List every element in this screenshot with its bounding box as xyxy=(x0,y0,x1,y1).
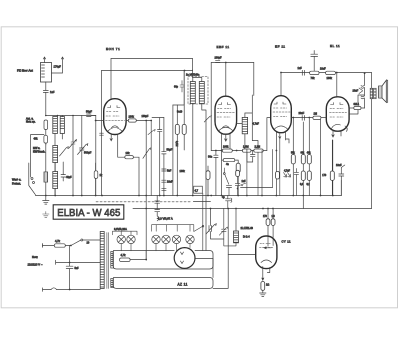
resistor 1,0M row1 xyxy=(242,149,251,152)
wire xyxy=(193,104,206,251)
svg-text:170pF: 170pF xyxy=(54,65,62,69)
wire xyxy=(110,59,112,100)
wire EL11 grid drop xyxy=(336,73,338,98)
resistor vertical right of box xyxy=(206,171,210,180)
svg-text:30n: 30n xyxy=(208,156,213,159)
filter capacitor stack xyxy=(155,196,160,221)
wire B+ down to transformer xyxy=(371,73,373,89)
svg-text:500pF: 500pF xyxy=(84,151,92,155)
svg-text:4,7: 4,7 xyxy=(195,189,199,193)
wire B plus column xyxy=(213,209,228,289)
resistor vertical row A1 xyxy=(291,155,295,164)
wire xyxy=(57,289,101,291)
wire anode EL11 to transformer xyxy=(349,95,364,114)
trimmer arrow small xyxy=(148,130,155,135)
wire xyxy=(83,239,100,241)
svg-text:6,3 V/0,07 A: 6,3 V/0,07 A xyxy=(158,216,173,220)
wire heater feed to rectifier xyxy=(228,254,256,256)
wire row1 xyxy=(211,150,267,152)
wire xyxy=(152,118,164,130)
filter capacitor pair right xyxy=(226,196,232,209)
wire xyxy=(45,130,47,196)
tube U4 pins xyxy=(332,126,347,137)
speaker LS1 xyxy=(379,80,388,102)
output transformer T-out primary xyxy=(370,88,373,98)
IF transformer T2 coil xyxy=(242,117,247,133)
capacitor 50pF mid xyxy=(162,152,166,154)
wire transformer secondary down xyxy=(371,99,373,209)
antenna coil L1 xyxy=(41,63,52,83)
wire xyxy=(192,59,194,71)
svg-text:110/220 V ~: 110/220 V ~ xyxy=(28,263,43,267)
power transformer primary winding xyxy=(100,232,104,289)
band switch bracket xyxy=(31,135,44,178)
wire downlead to tuner row xyxy=(45,93,47,116)
wire xyxy=(279,133,281,196)
bus 2 (B+ rail) xyxy=(133,208,372,210)
capacitor ticks lower xyxy=(162,169,166,190)
trimmer arrow IFT xyxy=(204,116,211,122)
resistor vertical row B2 xyxy=(307,171,311,180)
resistor below rectifier xyxy=(261,282,265,291)
svg-text:5nF: 5nF xyxy=(167,170,172,173)
svg-text:10nF: 10nF xyxy=(353,90,359,93)
wire xyxy=(211,209,224,240)
junction xyxy=(69,262,71,264)
resistor vertical 170 right xyxy=(330,171,334,180)
wire xyxy=(101,71,103,196)
wire xyxy=(130,251,146,260)
IFT1 secondary coil xyxy=(199,82,204,104)
potentiometer arrow xyxy=(143,148,151,159)
capacitor on AVC column xyxy=(158,130,162,132)
capacitor 10nF speaker xyxy=(359,88,363,94)
capacitor 30nF left xyxy=(214,155,218,157)
trimmer arrow over osc coil xyxy=(60,147,69,156)
wire second top bus xyxy=(102,70,193,72)
triode-hexode tube U1 ECH71 xyxy=(104,99,126,135)
svg-text:6,3V/0,28A: 6,3V/0,28A xyxy=(114,227,127,231)
junction dots bus2 xyxy=(145,208,274,210)
capacitor 50pF top xyxy=(87,114,96,117)
resistor vertical 4,7nF column xyxy=(276,171,280,179)
title box ELBIA W465 xyxy=(53,205,124,219)
wire speaker left column xyxy=(364,73,366,108)
wire AVC column xyxy=(159,132,161,196)
wire grid left xyxy=(96,120,104,122)
resistor 1M coupling xyxy=(313,116,321,119)
wire xyxy=(95,116,97,196)
resistor R row top1 xyxy=(310,71,319,74)
switch contacts wave switch xyxy=(31,178,33,180)
wire fuse line bottom left xyxy=(43,245,55,247)
IFT1 primary coil xyxy=(190,82,195,104)
svg-text:100k: 100k xyxy=(327,77,333,80)
voice coil squiggles xyxy=(361,86,364,99)
tube U3 pins xyxy=(276,131,289,196)
svg-text:1nF: 1nF xyxy=(50,90,55,94)
rectifier tube U5 xyxy=(256,236,277,269)
trimmer capacitor bottom xyxy=(206,224,216,234)
svg-text:11.17/11.48: 11.17/11.48 xyxy=(241,227,254,230)
mains lead top with prong xyxy=(56,260,70,264)
junction xyxy=(236,150,238,152)
resistor 1k vertical xyxy=(94,171,98,179)
wire xyxy=(55,116,62,196)
capacitor on cathode line xyxy=(100,133,104,135)
resistor vertical row B1 xyxy=(301,171,305,180)
wire xyxy=(69,246,71,290)
tube U2 internals xyxy=(217,103,235,131)
wire xyxy=(45,143,47,145)
power transformer core xyxy=(107,233,109,289)
svg-text:4,7k: 4,7k xyxy=(55,239,61,243)
ground symbol xyxy=(43,196,49,205)
mains switch blade xyxy=(71,240,80,245)
resistor R row top2 xyxy=(326,71,336,74)
wire xyxy=(163,118,165,196)
wire xyxy=(245,95,252,151)
wire xyxy=(247,151,262,196)
variable capacitor C-tune1 xyxy=(78,144,88,155)
output transformer T-out secondary xyxy=(374,88,377,98)
wire xyxy=(222,151,239,196)
capacitor 1nF with pointer xyxy=(236,170,240,176)
junction xyxy=(280,72,282,74)
power transformer heater winding 1 xyxy=(111,252,114,269)
junction xyxy=(215,150,217,152)
wire columns below coupling xyxy=(293,118,320,196)
wire xyxy=(195,259,213,278)
fuse resistor 4,7k xyxy=(54,244,65,247)
capacitor 40pF xyxy=(61,175,66,182)
wire grid cap tube3 xyxy=(280,73,282,96)
svg-text:10nF: 10nF xyxy=(167,181,173,184)
wire xyxy=(210,63,212,151)
switch blade at lamp bracket xyxy=(194,227,203,232)
dial lamp 4 xyxy=(162,235,170,243)
svg-text:1nF: 1nF xyxy=(242,180,247,183)
dial lamp 1 xyxy=(117,235,125,243)
svg-text:100pF: 100pF xyxy=(142,115,149,118)
capacitor 5nF to top xyxy=(311,51,318,73)
wire xyxy=(133,157,139,195)
mechanical gang dashed link xyxy=(96,201,192,203)
junction xyxy=(145,120,147,122)
svg-text:0,1M: 0,1M xyxy=(175,141,178,146)
junction xyxy=(145,259,147,261)
switch blade xyxy=(29,163,36,195)
capacitor 1nF in downlead xyxy=(43,91,48,93)
junction xyxy=(237,188,239,190)
junction xyxy=(69,289,71,291)
resistor 4n row2 xyxy=(223,159,235,162)
mains switch bump xyxy=(51,288,57,290)
wire tube2 plate to T2 xyxy=(236,123,242,125)
svg-text:Freiant.: Freiant. xyxy=(12,182,21,186)
junction xyxy=(221,150,223,152)
wire xyxy=(183,71,185,151)
input coil KW xyxy=(60,117,64,134)
wire long vertical xyxy=(145,121,147,261)
resistor vertical row A3 xyxy=(307,155,311,164)
svg-text:10nF: 10nF xyxy=(336,164,342,167)
wire xyxy=(192,70,194,78)
capacitor 100pF on top bus xyxy=(216,60,220,62)
resistor vertical rect1 xyxy=(266,219,270,226)
capacitor +/- mark xyxy=(247,149,255,162)
wire xyxy=(331,140,333,196)
svg-text:4,7k: 4,7k xyxy=(121,253,127,257)
wire xyxy=(176,105,178,196)
rectifier socket circle AZ11 xyxy=(174,248,195,269)
resistor vertical 40k xyxy=(44,135,48,143)
dial lamp 5 xyxy=(172,235,180,243)
lamp bracket right xyxy=(152,225,194,232)
junction xyxy=(313,72,315,74)
svg-text:0M-1: 0M-1 xyxy=(354,103,360,106)
wire heater feed xyxy=(202,193,204,250)
wire xyxy=(150,121,152,196)
wire xyxy=(126,120,151,122)
wire top bus ECH stage xyxy=(111,58,193,60)
svg-text:60p: 60p xyxy=(174,86,179,89)
svg-text:1,0M: 1,0M xyxy=(243,146,249,149)
oscillator coil 1 xyxy=(53,146,58,163)
wire oscillator grid column xyxy=(172,105,174,196)
wire coil to second arrow xyxy=(52,57,64,73)
ground stem lower xyxy=(43,212,49,218)
wire xyxy=(303,180,309,208)
svg-text:100k: 100k xyxy=(180,170,186,173)
junction xyxy=(45,115,47,117)
antenna arrow up xyxy=(43,57,45,63)
resistor 100k anode xyxy=(128,119,136,122)
dial lamp 3 xyxy=(152,235,160,243)
svg-text:Netz sp.: Netz sp. xyxy=(26,120,36,124)
svg-text:EBF 11: EBF 11 xyxy=(217,45,230,49)
svg-text:2,2M: 2,2M xyxy=(255,146,261,149)
svg-text:50pF: 50pF xyxy=(86,110,92,114)
power pentode U4 EL11 xyxy=(326,97,349,131)
resistor 100k row1 xyxy=(222,149,232,152)
wire xyxy=(340,181,342,196)
wire xyxy=(173,71,184,106)
resistor 50k vertical xyxy=(175,124,179,134)
svg-text:1nF: 1nF xyxy=(298,67,303,70)
junction xyxy=(70,245,72,247)
wire xyxy=(235,209,237,232)
svg-text:AZ 11: AZ 11 xyxy=(178,283,188,287)
wire bus1 right end up xyxy=(340,181,342,196)
svg-text:50pF: 50pF xyxy=(167,149,173,152)
wire top bus right (B+ to EL11) xyxy=(281,72,372,74)
resistor vertical row A2 xyxy=(301,155,305,164)
tube U5 internals xyxy=(260,244,274,263)
svg-text:2a 147/148a: 2a 147/148a xyxy=(186,74,200,77)
tube U4 internals xyxy=(330,103,347,129)
wire xyxy=(72,116,74,196)
junction xyxy=(308,117,310,119)
resistor 0.1M vertical xyxy=(182,124,186,134)
wire xyxy=(54,163,56,196)
resistor OM-L pill xyxy=(354,106,361,109)
junction dots on ground bus xyxy=(45,195,334,197)
wire xyxy=(237,160,239,195)
wire feedback loop xyxy=(241,150,273,188)
svg-text:Dr 1-4: Dr 1-4 xyxy=(243,236,250,239)
trimmer capacitor on choke column xyxy=(219,227,228,235)
svg-text:100k: 100k xyxy=(223,146,229,149)
dial lamp 6 xyxy=(186,235,194,243)
junction xyxy=(336,72,338,74)
wire xyxy=(349,107,365,109)
tube U3 internals xyxy=(273,102,290,129)
dial lamp 2 xyxy=(127,235,135,243)
resistor vertical rect2 xyxy=(271,219,275,226)
svg-text:40pF: 40pF xyxy=(66,176,72,179)
lamp bracket left xyxy=(113,231,138,235)
svg-text:1M: 1M xyxy=(314,113,317,116)
svg-text:5+10: 5+10 xyxy=(177,112,183,114)
tube U1 internals xyxy=(106,106,125,132)
wire to tube3 xyxy=(252,141,258,151)
junction xyxy=(150,120,152,122)
socket filament marks xyxy=(181,252,184,264)
svg-text:ECH 71: ECH 71 xyxy=(106,47,120,51)
wire choke column xyxy=(224,209,236,246)
wire xyxy=(62,162,64,175)
lamp stubs to chassis box xyxy=(121,244,190,251)
filter choke Dr xyxy=(234,231,239,243)
pentode U2 EBF11 xyxy=(215,96,237,134)
wire xyxy=(207,166,209,196)
wire xyxy=(268,209,273,238)
resistor vertical in antenna lead xyxy=(44,120,48,130)
svg-text:4,7nF: 4,7nF xyxy=(284,171,290,173)
ground below rectifier xyxy=(260,290,266,296)
svg-text:FE über Ant: FE über Ant xyxy=(17,69,33,73)
resistor 10k xyxy=(125,156,134,159)
resistor 2,2M row1 xyxy=(254,149,263,152)
wire xyxy=(65,245,71,247)
heater loop box upper xyxy=(113,251,213,270)
svg-text:ELBIA - W 465: ELBIA - W 465 xyxy=(57,208,120,219)
junction xyxy=(72,115,74,117)
short rail below 4,7 box xyxy=(193,201,210,203)
wire xyxy=(81,116,83,196)
junction xyxy=(292,117,294,119)
heater loop box lower xyxy=(113,278,213,289)
svg-text:Wurf- u.: Wurf- u. xyxy=(12,178,21,182)
junction xyxy=(364,72,366,74)
wire antenna downlead xyxy=(45,82,47,90)
svg-text:4,7nF: 4,7nF xyxy=(253,123,260,126)
anode arrow inside rectifier xyxy=(265,247,271,249)
power transformer heater winding 2 xyxy=(111,279,114,288)
pentode U3 EF11 xyxy=(271,96,292,133)
tone switch with capacitor xyxy=(223,173,225,175)
capacitor ticks mid right xyxy=(294,169,298,196)
svg-text:100pF: 100pF xyxy=(215,57,223,60)
svg-text:5nF: 5nF xyxy=(75,267,80,270)
wire pin to 10k xyxy=(118,134,125,157)
wire xyxy=(70,262,101,264)
plug prong left xyxy=(42,244,44,248)
capacitor series in top bus xyxy=(302,70,304,75)
capacitor 60pF left of IFT1 xyxy=(180,81,184,93)
ground bus main xyxy=(35,195,341,197)
resistor 4,7k in heater loop xyxy=(120,258,131,262)
svg-text:EL 11: EL 11 xyxy=(330,44,340,48)
wire tube3 input left xyxy=(267,118,271,151)
svg-text:KW/Tonab.: KW/Tonab. xyxy=(33,151,46,154)
input coil MW xyxy=(53,117,58,134)
trimmer capacitor with arrow xyxy=(69,140,77,149)
junction xyxy=(95,120,97,122)
svg-text:Netz: Netz xyxy=(32,255,38,259)
IF transformer T1 dashed box xyxy=(188,77,208,105)
oscillator coil 2 xyxy=(53,172,58,189)
tube U1 cathode pins xyxy=(110,134,112,141)
node junction xyxy=(184,70,186,72)
diode arrow mid xyxy=(284,173,291,178)
node tuner top row wire xyxy=(46,115,96,117)
capacitor 20nF coupling xyxy=(302,116,304,121)
junction xyxy=(276,150,278,152)
junction xyxy=(207,195,209,197)
svg-text:EF 11: EF 11 xyxy=(275,45,286,49)
wire tube3-tube4 coupling xyxy=(291,117,326,119)
wire tube4 cathode down xyxy=(332,140,334,196)
resistor vertical on antenna line lower xyxy=(44,172,48,182)
wire xyxy=(293,164,309,196)
wire xyxy=(95,163,97,196)
capacitor 5nF across mains xyxy=(66,266,73,268)
junction xyxy=(225,62,227,64)
resistor 50k vertical below xyxy=(236,163,240,172)
tube U5 pins xyxy=(263,267,270,278)
svg-text:100k: 100k xyxy=(129,116,135,119)
capacitor 10nF with switch right xyxy=(339,165,345,181)
tube U2 pins xyxy=(222,134,231,151)
wire xyxy=(215,151,217,196)
component box 4,7 xyxy=(194,186,203,193)
junction xyxy=(57,115,59,117)
wire EBF top bus xyxy=(211,62,254,64)
svg-text:20nF: 20nF xyxy=(299,112,305,115)
svg-text:10nF: 10nF xyxy=(320,68,326,71)
wire xyxy=(193,78,202,82)
mains lead bottom with prong xyxy=(43,288,52,292)
wire grid cap tube2 xyxy=(225,63,227,97)
wire xyxy=(253,63,255,96)
svg-text:CY 11: CY 11 xyxy=(282,240,292,244)
rectifier pins inside bulb xyxy=(268,237,273,246)
